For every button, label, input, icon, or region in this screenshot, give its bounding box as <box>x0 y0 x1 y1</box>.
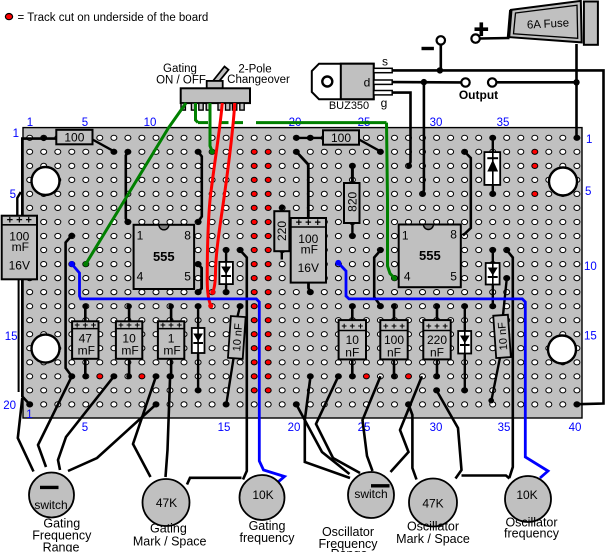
diode D3 <box>486 263 500 285</box>
wire col4 row18 to S1 <box>38 376 72 467</box>
svg-text:15: 15 <box>218 422 231 434</box>
diode D4 <box>458 331 471 354</box>
svg-text:8: 8 <box>184 229 191 243</box>
wire green switch pin3 to col14 row2 <box>210 103 212 152</box>
resistor R3 820 <box>344 183 360 223</box>
svg-text:15: 15 <box>584 331 597 343</box>
svg-text:1: 1 <box>586 134 592 146</box>
mounting hole <box>549 168 577 196</box>
svg-text:ON / OFF: ON / OFF <box>156 75 206 87</box>
svg-text:6A Fuse: 6A Fuse <box>527 17 570 31</box>
svg-text:+ + +: + + + <box>160 320 182 331</box>
wire link col4 row8-row18 <box>66 235 72 376</box>
timer U2 555 <box>399 225 461 288</box>
wire col10 row18 to VR1 <box>133 376 156 477</box>
wire col26 row18 to S2 <box>363 376 381 471</box>
wire source to minus junction and around right side to row20 <box>392 70 604 404</box>
svg-text:820: 820 <box>345 191 359 211</box>
svg-text:100: 100 <box>331 131 351 145</box>
svg-text:100: 100 <box>64 131 84 145</box>
toggle switch lever <box>213 67 229 85</box>
wire link col8 row2-row7 <box>126 152 128 222</box>
pot VR1 47K <box>143 479 190 526</box>
svg-text:5: 5 <box>82 117 88 129</box>
svg-text:g: g <box>381 96 388 110</box>
minus terminal <box>439 45 442 71</box>
hole grid with red track-cut holes <box>27 135 580 407</box>
switch S1 Gating Frequency Range <box>29 473 74 518</box>
svg-text:+ + +: + + + <box>7 215 32 227</box>
diode D2 <box>192 328 205 353</box>
wire col20 row20 to S2 <box>296 404 349 474</box>
wire red A switch to col14 row13 <box>207 103 222 305</box>
wire capacitor 10nF leads <box>351 306 354 320</box>
capacitor C9 10nF <box>228 316 246 359</box>
svg-text:10 nF: 10 nF <box>496 321 510 350</box>
toggle switch pins <box>181 103 185 110</box>
svg-text:+ + +: + + + <box>383 321 405 332</box>
svg-text:8: 8 <box>450 228 457 242</box>
switch S2 Oscillator Frequency Range <box>348 472 394 518</box>
wire C2 bottom lead <box>309 283 311 293</box>
svg-text:nF: nF <box>345 346 359 360</box>
wire R4 leads <box>281 207 283 212</box>
wire red B switch to col14 row12 <box>213 103 235 292</box>
svg-text:s: s <box>382 55 388 69</box>
svg-text:5: 5 <box>184 270 191 284</box>
capacitor 100 nF <box>380 320 407 359</box>
svg-text:Gating: Gating <box>150 522 187 536</box>
wire capacitor C10 leads <box>503 278 507 315</box>
svg-text:10 nF: 10 nF <box>231 323 245 352</box>
wire col7 row18 to S1 <box>58 376 114 470</box>
svg-text:30: 30 <box>430 422 443 434</box>
svg-text:10: 10 <box>584 261 597 273</box>
wire diode D3 leads <box>492 250 494 263</box>
wire green switch to col5 row10 <box>86 103 186 264</box>
capacitor 220 nF <box>423 320 450 359</box>
svg-text:frequency: frequency <box>504 527 560 541</box>
svg-text:nF: nF <box>430 346 444 360</box>
svg-text:Changeover: Changeover <box>227 74 290 86</box>
svg-text:switch: switch <box>34 498 67 512</box>
svg-text:BUZ350: BUZ350 <box>329 100 369 112</box>
svg-text:35: 35 <box>497 117 510 129</box>
svg-text:555: 555 <box>419 248 441 263</box>
svg-text:35: 35 <box>498 422 511 434</box>
wire R2 right lead <box>359 140 381 152</box>
resistor R1 100 <box>56 130 92 145</box>
pot VR2 10K <box>240 475 285 520</box>
capacitor 1 mF <box>158 320 184 359</box>
wire R3 leads <box>351 166 354 184</box>
wire col10 row20 to S1 <box>68 404 156 471</box>
wire R2 left lead <box>297 137 323 139</box>
fuse F1 6A <box>509 1 598 45</box>
legend track-cut dot <box>5 14 12 20</box>
capacitor 47 mF <box>72 320 98 359</box>
svg-text:+ + +: + + + <box>426 321 448 332</box>
wire diode D2 leads <box>197 306 199 328</box>
wire VR3 to VR4 <box>462 476 510 479</box>
wire col30 row19 to VR3 <box>437 390 462 478</box>
wire bus to switch S1 <box>18 398 34 472</box>
wire col16 row9 to pot VR2 <box>240 250 247 479</box>
svg-text:40: 40 <box>569 422 582 434</box>
svg-text:20: 20 <box>3 400 16 412</box>
wire capacitor C1 bottom lead <box>18 280 20 392</box>
wire diode D1 leads <box>225 250 227 262</box>
svg-text:1: 1 <box>137 229 144 243</box>
svg-text:10K: 10K <box>516 488 537 502</box>
capacitor 10 mF <box>116 320 142 359</box>
wire C2 top lead <box>297 152 309 219</box>
svg-text:Range: Range <box>43 541 80 552</box>
wire drain to output <box>392 81 461 84</box>
wire link col26 row9-row13 <box>374 250 380 305</box>
capacitor C1 100mF 16V <box>2 215 37 280</box>
svg-text:47K: 47K <box>422 497 443 511</box>
svg-text:5: 5 <box>585 186 591 198</box>
svg-text:+ + +: + + + <box>296 217 321 229</box>
wire green switch pin2 dashed run <box>196 103 199 123</box>
svg-text:+ + +: + + + <box>341 321 363 332</box>
wire col28 row20 to VR3 <box>409 404 417 479</box>
svg-text:Mark / Space: Mark / Space <box>133 535 207 549</box>
svg-text:d: d <box>364 76 371 90</box>
wire capacitor C10mF leads <box>128 306 131 321</box>
svg-text:switch: switch <box>354 487 387 501</box>
toggle switch body <box>181 88 250 103</box>
svg-text:frequency: frequency <box>240 531 296 545</box>
svg-text:1: 1 <box>27 117 33 129</box>
wire green down col27 <box>387 123 395 278</box>
wire output right to fuse line <box>497 81 577 84</box>
svg-text:555: 555 <box>153 249 175 264</box>
wire link col32 row2 to U2 pin8 <box>463 152 471 236</box>
svg-text:Gating: Gating <box>163 63 197 75</box>
wire col21 row18 to S2 <box>305 376 350 478</box>
svg-text:1: 1 <box>402 229 409 243</box>
capacitor C10 10nF <box>493 315 511 358</box>
svg-text:Mark / Space: Mark / Space <box>396 532 470 546</box>
wire diode D4 leads <box>464 306 466 331</box>
svg-text:mF: mF <box>163 344 180 358</box>
svg-text:mF: mF <box>12 240 29 254</box>
wire R1 right lead <box>93 140 114 152</box>
wire left bus <box>22 139 56 405</box>
output terminals <box>461 78 469 86</box>
transistor Q1 BUZ350 <box>312 64 392 99</box>
wire link col35 row9 to pot VR4 <box>507 250 513 478</box>
plus terminal <box>471 34 479 42</box>
wire capacitor C1 top lead <box>17 192 21 216</box>
wire diode D5 leads <box>492 138 494 153</box>
svg-text:10K: 10K <box>252 488 273 502</box>
svg-text:5: 5 <box>82 422 88 434</box>
svg-text:nF: nF <box>387 346 401 360</box>
svg-text:20: 20 <box>288 422 301 434</box>
wire plus to fuse <box>480 37 510 40</box>
wire VR1 to VR2 <box>187 478 242 485</box>
mounting hole <box>32 167 60 195</box>
svg-text:15: 15 <box>5 331 18 343</box>
svg-text:Output: Output <box>459 88 498 102</box>
pot VR4 10K <box>505 476 551 522</box>
svg-text:Range: Range <box>331 547 368 552</box>
resistor R4 220 <box>274 211 289 251</box>
wire capacitor C9 leads <box>238 306 241 316</box>
svg-text:220: 220 <box>275 221 289 241</box>
wire link col13 row10-row12 <box>198 264 202 292</box>
wire capacitor 220nF leads <box>436 306 439 320</box>
svg-text:1: 1 <box>13 128 19 140</box>
svg-text:4: 4 <box>137 270 144 284</box>
svg-text:5: 5 <box>10 189 16 201</box>
op-amp timer U1 555 <box>134 225 195 289</box>
svg-text:10: 10 <box>144 117 157 129</box>
pot VR3 47K <box>409 479 457 527</box>
toggle switch base <box>207 81 223 88</box>
wire link col13 row2 to U1 pin8 <box>198 152 202 222</box>
capacitor 10 nF <box>339 320 366 359</box>
svg-text:16V: 16V <box>9 259 30 273</box>
svg-text:= Track cut on underside of th: = Track cut on underside of the board <box>18 12 209 24</box>
stripboard <box>23 128 582 418</box>
wire blue right col23 row10 to pot VR4 <box>338 263 548 478</box>
svg-text:47K: 47K <box>156 496 177 510</box>
wire gate to board <box>392 93 411 166</box>
wire col23 row18 to S2 <box>316 376 360 473</box>
svg-text:4: 4 <box>404 269 411 283</box>
svg-text:+ + +: + + + <box>74 320 96 331</box>
svg-text:30: 30 <box>430 117 443 129</box>
svg-text:mF: mF <box>78 344 95 358</box>
wire capacitor C47mF leads <box>84 306 87 321</box>
wire capacitor C1mF leads <box>170 306 173 321</box>
svg-text:1: 1 <box>26 409 32 421</box>
svg-text:16V: 16V <box>298 261 319 275</box>
diode D1 <box>219 262 233 284</box>
wire capacitor 100nF leads <box>393 306 396 320</box>
wire col29 row18 to S2 <box>391 376 422 472</box>
mounting hole <box>548 336 576 364</box>
capacitor C2 100mF 16V <box>291 217 326 283</box>
mounting hole <box>32 335 60 363</box>
svg-text:mF: mF <box>121 344 138 358</box>
wire col11 row18 to VR1 <box>166 376 171 477</box>
wire drain down to board <box>423 82 424 194</box>
resistor R2 100 <box>323 130 359 145</box>
svg-text:+ + +: + + + <box>118 320 140 331</box>
diode D5 <box>484 152 500 185</box>
svg-text:mF: mF <box>301 242 318 256</box>
wire blue left col4 row10 to pot VR2 <box>72 264 285 483</box>
wire fuse down to board row1 <box>575 44 578 138</box>
svg-text:5: 5 <box>450 269 457 283</box>
